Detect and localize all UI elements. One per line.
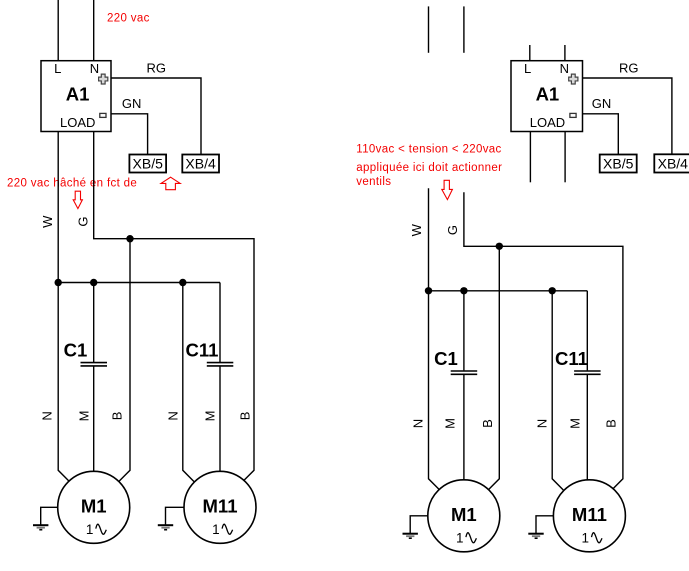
junction M1-M/bus (right) [460, 287, 467, 294]
stub LOAD wire 2 (right A1, dangling) [564, 132, 566, 183]
wire GN (left) [111, 114, 148, 155]
svg-text:1: 1 [456, 531, 464, 546]
svg-text:N: N [534, 419, 549, 428]
svg-text:M11: M11 [203, 495, 238, 516]
wire RG (left) [111, 78, 201, 155]
wire N of M11 (left) [183, 283, 195, 483]
svg-text:M: M [202, 410, 217, 421]
svg-text:XB/5: XB/5 [603, 156, 634, 172]
wire B branch to M1 (right) [489, 246, 500, 489]
stub LOAD wire 1 (right A1, dangling) [529, 132, 531, 183]
svg-text:L: L [524, 61, 531, 76]
motor M1 (right) [428, 480, 500, 552]
svg-text:B: B [603, 419, 618, 428]
svg-text:GN: GN [592, 96, 612, 111]
junction M11-N/bus (right) [549, 287, 556, 294]
bus wire (left horizontal) [58, 282, 220, 284]
bus wire (right horizontal) [429, 290, 588, 292]
svg-text:XB/5: XB/5 [133, 156, 164, 172]
svg-text:M: M [567, 418, 582, 429]
svg-text:N: N [40, 411, 55, 420]
wire B branch to M1 (left) [119, 239, 130, 482]
wire L input (left, from top) [57, 0, 59, 61]
terminal XB/5 (right) [600, 155, 637, 173]
svg-text:N: N [90, 61, 99, 76]
svg-text:G: G [76, 216, 91, 226]
plus terminal symbol (right A1) [569, 74, 578, 84]
svg-text:L: L [54, 61, 61, 76]
terminal XB/4 (left) [182, 155, 219, 173]
stub L top (right A1) [529, 45, 531, 61]
svg-text:M: M [77, 410, 92, 421]
svg-text:W: W [40, 215, 55, 228]
svg-text:C11: C11 [186, 339, 219, 360]
svg-text:C1: C1 [434, 348, 458, 369]
wire G (right, down then right to B11 line) [464, 192, 623, 489]
terminal XB/4 (right) [654, 154, 689, 172]
stub N top (right A1) [564, 45, 566, 61]
plus terminal symbol (left A1) [99, 74, 108, 84]
terminal XB/5 (left) [129, 155, 166, 173]
svg-text:N: N [560, 61, 569, 76]
annotation arrow up (red outline) [161, 177, 180, 190]
wire RG (right) [583, 78, 672, 154]
svg-text:220 vac: 220 vac [107, 12, 150, 24]
svg-text:GN: GN [122, 96, 142, 111]
junction M11-N/bus [179, 279, 186, 286]
svg-text:220 vac hâché en fct de: 220 vac hâché en fct de [7, 177, 137, 189]
junction M1-M/bus [90, 279, 97, 286]
svg-text:LOAD: LOAD [60, 115, 95, 130]
svg-text:ventils: ventils [356, 176, 391, 188]
svg-text:B: B [480, 419, 495, 428]
svg-text:110vac < tension < 220vac: 110vac < tension < 220vac [356, 144, 501, 156]
controller A1 (right) [511, 61, 583, 132]
motor M11 (left) [184, 471, 256, 543]
ground (M1 left) [41, 507, 58, 525]
svg-text:M1: M1 [81, 495, 107, 516]
svg-text:B: B [237, 412, 252, 421]
svg-text:G: G [445, 225, 460, 235]
motor M1 (left) [58, 471, 130, 543]
wire M of M1 (left, bus to C1 to motor) [93, 283, 95, 363]
svg-text:M: M [443, 418, 458, 429]
junction W/bus (right) [425, 287, 432, 294]
minus terminal symbol (left A1) [100, 113, 106, 117]
svg-text:1: 1 [582, 531, 590, 546]
dangling supply wire 2 (right top) [463, 6, 465, 52]
wire M of M11 (left, bus end to C11 to motor) [219, 283, 221, 363]
wire GN (right) [583, 114, 619, 155]
svg-text:1: 1 [212, 522, 220, 537]
svg-text:W: W [409, 223, 424, 236]
ground (M1 right) [410, 516, 428, 534]
wire W (left, A1 to motor M1 N-terminal) [58, 132, 69, 482]
controller A1 (left) [41, 61, 111, 132]
svg-text:appliquée ici doit actionner: appliquée ici doit actionner [356, 162, 502, 174]
junction on G branch (right) [496, 243, 503, 250]
svg-text:M11: M11 [572, 504, 607, 525]
svg-text:N: N [165, 411, 180, 420]
minus terminal symbol (right A1) [570, 113, 576, 117]
svg-text:LOAD: LOAD [530, 115, 565, 130]
annotation arrow down (red outline, right) [442, 180, 453, 199]
junction W/bus [55, 279, 62, 286]
ground (M11 right) [536, 516, 553, 534]
svg-text:XB/4: XB/4 [185, 156, 216, 172]
junction on G branch [126, 235, 133, 242]
svg-text:A1: A1 [536, 83, 560, 104]
wire N input (left, from top) [93, 0, 95, 61]
ground (M11 left) [166, 507, 185, 525]
motor M11 (right) [553, 480, 625, 552]
svg-text:RG: RG [147, 61, 167, 76]
svg-text:C1: C1 [64, 339, 88, 360]
wire W (right, to motor M1 N-terminal) [429, 188, 440, 489]
svg-text:B: B [110, 412, 125, 421]
svg-text:A1: A1 [66, 83, 90, 104]
wire M of M1 (right) [463, 291, 465, 371]
dangling supply wire 1 (right top) [428, 6, 430, 52]
svg-text:RG: RG [619, 61, 639, 76]
svg-text:M1: M1 [451, 504, 477, 525]
annotation arrow down (red outline, left) [73, 191, 82, 208]
wire M of M11 (right) [586, 291, 588, 371]
svg-text:1: 1 [86, 522, 94, 537]
wire N of M11 (right) [552, 291, 564, 491]
svg-text:N: N [411, 419, 426, 428]
wire G (left, A1 LOAD down then right to B11 line) [94, 132, 254, 481]
svg-text:C11: C11 [555, 348, 588, 369]
svg-text:XB/4: XB/4 [658, 155, 689, 171]
